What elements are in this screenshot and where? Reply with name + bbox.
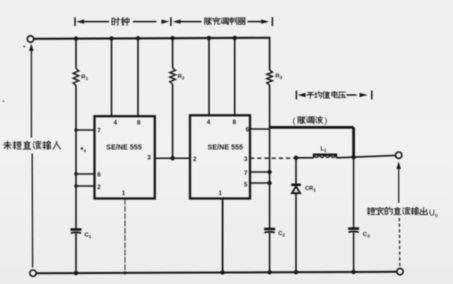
value label U2 SE/NE 555 [208, 144, 244, 151]
svg-text:C1: C1 [85, 233, 92, 239]
svg-text:(: ( [293, 116, 296, 125]
wire pin4 U2 to rail [208, 38, 210, 115]
wire pin2 U1 [76, 185, 95, 187]
junction rail pin8 U1 [136, 36, 140, 40]
wire pin7 U1 [76, 129, 95, 131]
junction diode node [294, 156, 298, 160]
svg-text:8: 8 [233, 119, 237, 126]
diode CR1 triangle [292, 186, 300, 193]
capacitor C2 [264, 229, 275, 233]
wire pin4 U1 to rail [111, 38, 113, 116]
pin 5 label U2 [244, 181, 248, 188]
wire feedback vertical drop [352, 127, 355, 157]
wire C2 to ground rail [269, 233, 271, 273]
junction R2 clock node [170, 156, 174, 160]
wire R2 top lead [172, 38, 174, 68]
wire feedback node to output node horizontal [270, 126, 354, 129]
node output annotation arrow [397, 162, 401, 170]
svg-text:7: 7 [97, 128, 101, 135]
inductor L1 [313, 155, 337, 158]
pin 1 label U2 [219, 190, 223, 197]
pin 7 label U2 [244, 170, 248, 177]
junction R3 pin5 [267, 181, 271, 185]
terminal input + (top-left) [27, 36, 33, 42]
pin 3 label U1 [147, 154, 151, 161]
resistor R3 [267, 70, 273, 85]
pin 6 label U2 [246, 126, 250, 133]
svg-text:R1: R1 [81, 75, 88, 81]
junction top rail / R2 [170, 36, 174, 40]
junction diode ground rail [294, 270, 298, 274]
pin 2 label U1 [97, 184, 101, 191]
text label stabilized DC output 稳定的直流输出U0 [367, 207, 438, 219]
svg-text:2: 2 [97, 184, 101, 191]
svg-text:3: 3 [244, 156, 248, 163]
value label R2 [178, 74, 185, 80]
junction top rail / R1 [74, 36, 78, 40]
value label C1 [85, 233, 92, 239]
wire diode node to inductor [296, 157, 314, 159]
pin 7 label U1 [97, 128, 101, 135]
wire input annotation line lower [31, 154, 33, 268]
svg-text:C3: C3 [363, 232, 370, 238]
svg-text:6: 6 [97, 172, 101, 179]
pin 3 label U2 [244, 156, 248, 163]
junction R1 / ground rail [74, 271, 78, 275]
text label modulated wave (脉调波) [293, 116, 328, 125]
text label PWM 脉宽调制器 [205, 17, 246, 24]
wire C3 to ground rail [353, 232, 355, 272]
junction output node [351, 155, 355, 159]
value label U1 SE/NE 555 [106, 144, 142, 151]
svg-text:1: 1 [122, 190, 126, 197]
svg-text:R2: R2 [178, 74, 185, 80]
wire output node to C3 [353, 157, 355, 228]
wire R1 to C1 [75, 86, 77, 230]
svg-text:CR1: CR1 [305, 186, 316, 192]
pin 8 label U2 [233, 119, 237, 126]
dimension arrow PWM section [173, 17, 273, 26]
wire R1 top lead [75, 39, 77, 69]
svg-text:1: 1 [219, 190, 223, 197]
svg-text:C2: C2 [278, 231, 285, 237]
junction rail pin4 U1 [109, 36, 113, 40]
junction R1 line pin2 [74, 184, 77, 187]
node input annotation arrow [29, 44, 33, 52]
op-amp U1 timer SE/NE 555 body [95, 116, 155, 198]
wire pin1 U2 to ground [222, 199, 224, 273]
op-amp U2 timer SE/NE 555 body [190, 115, 250, 198]
junction R1 line pin7 [74, 128, 77, 131]
svg-text:4: 4 [114, 120, 118, 127]
wire pin6 U1 [76, 173, 95, 175]
wire output annotation line lower dashed [398, 218, 401, 267]
wire C1 to ground rail [75, 233, 77, 273]
pin 8 label U1 [137, 120, 141, 127]
svg-text:R3: R3 [275, 74, 282, 80]
pin 4 label U2 [207, 119, 211, 126]
pin 6 label U1 [97, 172, 101, 179]
value label C3 [363, 232, 370, 238]
value label L1 [321, 147, 328, 153]
dimension arrow average voltage 平均值电压 [296, 91, 371, 100]
svg-text:8: 8 [137, 120, 141, 127]
wire R3 to pin6 node [269, 85, 271, 229]
value label R3 [275, 74, 282, 80]
svg-text:): ) [325, 116, 328, 125]
wire pin6 U2 to R3 line [250, 128, 270, 130]
resistor R2 [170, 68, 176, 84]
svg-text:3: 3 [147, 154, 151, 161]
wire R3 top lead [269, 37, 271, 70]
svg-text:7: 7 [244, 170, 248, 177]
junction R3 pin7 [267, 170, 271, 174]
text label unregulated DC input 未稳直流输入 [4, 141, 61, 149]
diode CR1 cathode bar [291, 184, 301, 187]
svg-text:4: 4 [207, 119, 211, 126]
svg-text:6: 6 [246, 126, 250, 133]
value label C2 [278, 231, 285, 237]
wire U2 pin3 output dashed [250, 157, 296, 159]
text label clock 时钟 [112, 18, 129, 26]
wire pin8 U1 to rail [137, 38, 139, 116]
wire output annotation line upper [398, 169, 400, 204]
svg-text:L1: L1 [321, 147, 328, 153]
junction rail pin4 U2 [207, 36, 211, 40]
terminal input - (bottom-left) [30, 270, 36, 276]
wire diode bottom lead [295, 193, 297, 272]
wire input annotation line upper [30, 51, 32, 138]
junction pin1 U1 ground rail [124, 271, 127, 274]
node smudge mark near U1 left [3, 46, 86, 152]
pin 1 label U1 [122, 190, 126, 197]
junction C3 ground rail [351, 270, 355, 274]
terminal output + (top-right) [396, 152, 402, 158]
wire top supply rail [34, 38, 270, 39]
svg-text:5: 5 [244, 181, 248, 188]
svg-text:2: 2 [193, 156, 197, 163]
capacitor C1 [71, 230, 82, 234]
wire inductor to output terminal [336, 155, 395, 157]
text label 平均值电压 [307, 91, 346, 98]
wire pin7 U2 to R3 line [250, 171, 270, 173]
resistor R1 [73, 69, 79, 86]
svg-text:Uo: Uo [429, 208, 438, 219]
capacitor C3 [348, 229, 359, 233]
junction pin1 U2 ground rail [220, 270, 224, 274]
value label CR1 [305, 186, 316, 192]
terminal output - (bottom-right) [397, 268, 403, 274]
svg-text:SE/NE 555: SE/NE 555 [106, 144, 142, 151]
wire diode top lead [295, 158, 297, 184]
junction rail pin8 U2 [233, 36, 237, 40]
wire U1 output to U2 trigger [155, 157, 190, 159]
dimension arrow clock section [75, 17, 171, 26]
wire pin1 U1 to ground [124, 199, 126, 273]
junction R3 ground rail [267, 270, 271, 274]
value label R1 [81, 75, 88, 81]
wire pin8 U2 to rail [234, 38, 236, 115]
wire pin5 U2 to R3 line [250, 182, 270, 184]
pin 2 label U2 [193, 156, 197, 163]
wire bottom ground rail [36, 272, 396, 273]
junction R1 line pin6 [74, 172, 77, 175]
wire R2 to clock node [172, 84, 174, 158]
pin 4 label U1 [114, 120, 118, 127]
svg-text:SE/NE 555: SE/NE 555 [208, 144, 244, 151]
